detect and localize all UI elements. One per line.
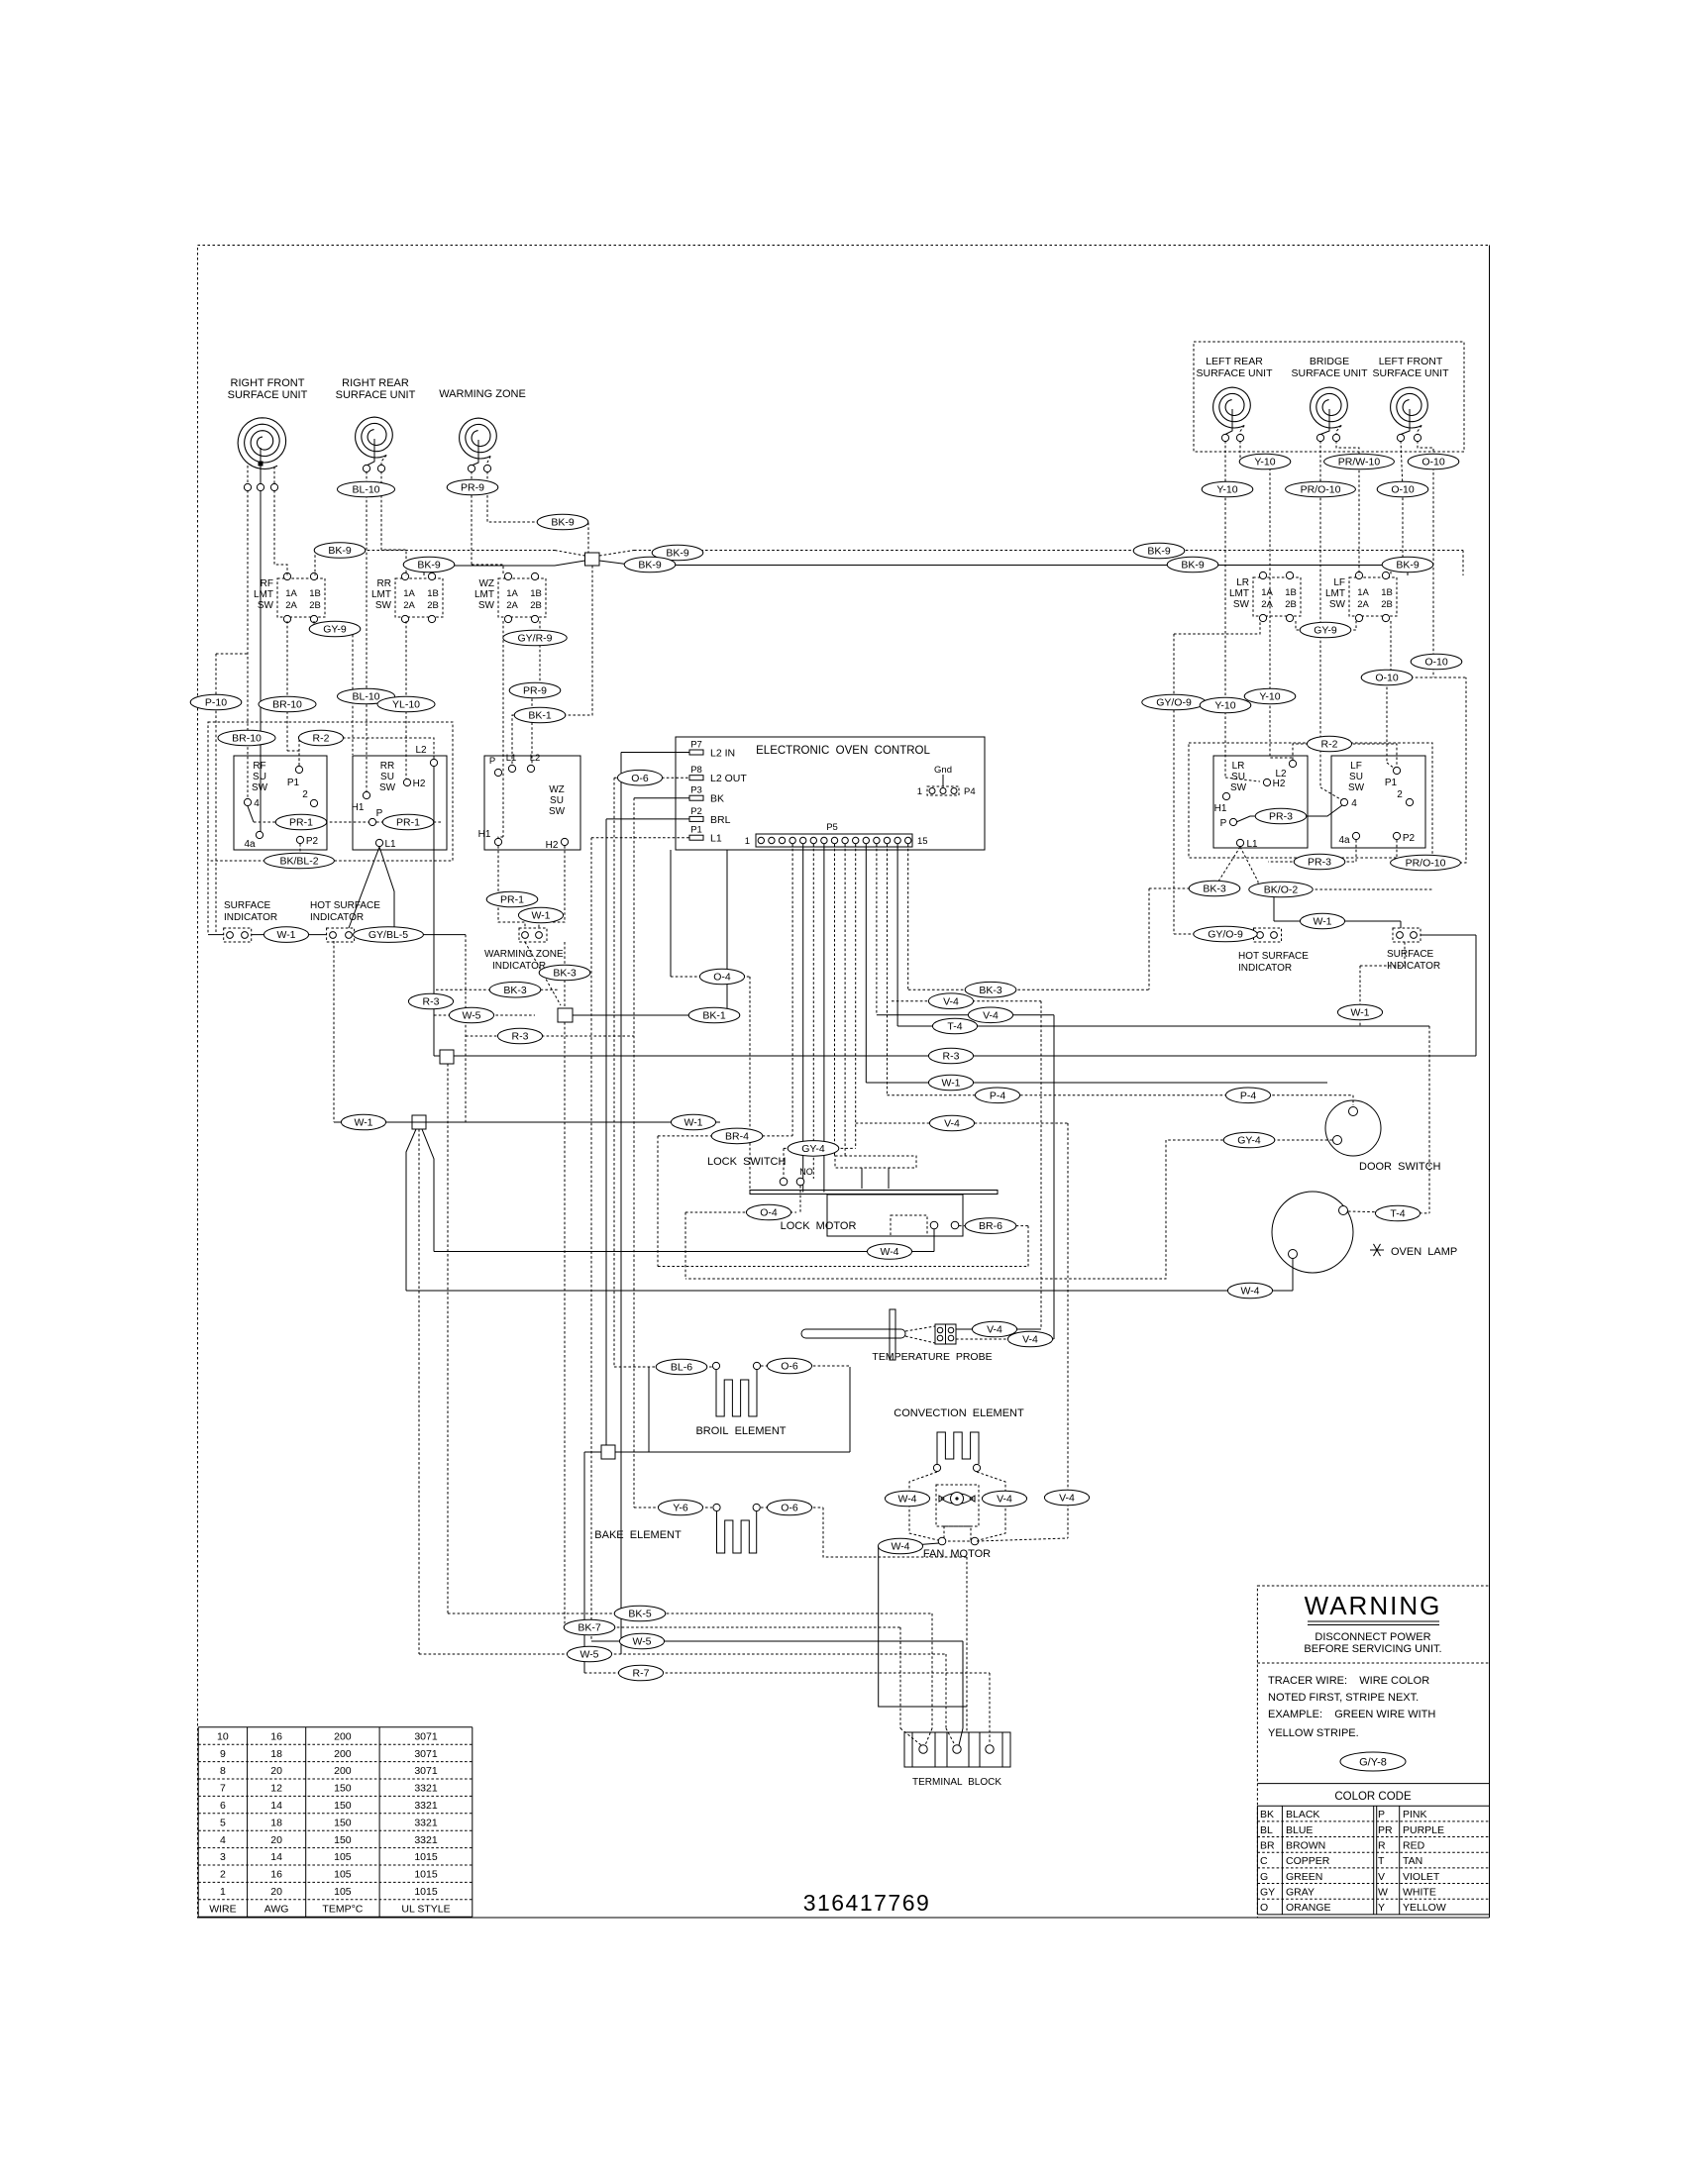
svg-text:BK-1: BK-1 (702, 1010, 726, 1022)
svg-text:V-4: V-4 (987, 1324, 1002, 1336)
svg-text:2B: 2B (427, 600, 439, 611)
svg-text:1: 1 (220, 1886, 226, 1898)
svg-text:O-10: O-10 (1421, 457, 1445, 468)
svg-text:WARMING ZONE: WARMING ZONE (439, 388, 526, 400)
svg-text:BK-9: BK-9 (417, 560, 441, 572)
svg-text:CONVECTION ELEMENT: CONVECTION ELEMENT (894, 1407, 1024, 1419)
svg-text:1B: 1B (309, 588, 321, 599)
svg-text:EXAMPLE: GREEN WIRE WITH: EXAMPLE: GREEN WIRE WITH (1268, 1709, 1435, 1720)
svg-text:SW: SW (379, 782, 396, 793)
svg-text:SURFACE UNIT: SURFACE UNIT (1372, 367, 1449, 379)
svg-text:NO: NO (799, 1167, 813, 1177)
svg-text:P: P (1378, 1809, 1385, 1820)
svg-text:TAN: TAN (1403, 1855, 1422, 1867)
svg-text:SW: SW (1348, 782, 1365, 793)
svg-text:W-5: W-5 (462, 1010, 480, 1022)
svg-text:GY-9: GY-9 (323, 624, 347, 636)
svg-text:1A: 1A (403, 588, 415, 599)
svg-text:1015: 1015 (414, 1851, 438, 1863)
svg-text:2A: 2A (1261, 599, 1273, 610)
svg-text:O-4: O-4 (760, 1207, 778, 1219)
svg-text:P-4: P-4 (990, 1090, 1006, 1101)
svg-text:BEFORE SERVICING UNIT.: BEFORE SERVICING UNIT. (1304, 1643, 1441, 1655)
svg-text:SW: SW (1230, 782, 1247, 793)
svg-text:COLOR CODE: COLOR CODE (1334, 1791, 1412, 1803)
svg-text:SU: SU (1231, 772, 1245, 782)
svg-text:PR-1: PR-1 (500, 894, 524, 906)
svg-text:INDICATOR: INDICATOR (224, 912, 277, 923)
svg-text:ELECTRONIC OVEN CONTROL: ELECTRONIC OVEN CONTROL (756, 745, 930, 757)
svg-text:1B: 1B (427, 588, 439, 599)
svg-text:Y-10: Y-10 (1214, 700, 1235, 712)
svg-text:W-1: W-1 (276, 929, 295, 941)
svg-text:RED: RED (1403, 1840, 1425, 1852)
svg-text:P: P (1220, 818, 1227, 829)
svg-text:P4: P4 (964, 786, 976, 797)
svg-text:WZ: WZ (549, 784, 565, 795)
svg-text:3321: 3321 (414, 1800, 438, 1812)
svg-text:HOT SURFACE: HOT SURFACE (1238, 951, 1309, 962)
svg-text:SURFACE UNIT: SURFACE UNIT (1196, 367, 1273, 379)
svg-text:W-5: W-5 (579, 1649, 598, 1661)
svg-text:1A: 1A (506, 588, 518, 599)
svg-text:18: 18 (270, 1817, 282, 1828)
svg-text:O-4: O-4 (713, 972, 731, 984)
svg-text:BRIDGE: BRIDGE (1310, 356, 1349, 367)
svg-text:RF: RF (253, 761, 265, 772)
svg-text:BK-9: BK-9 (328, 545, 352, 557)
svg-text:4: 4 (220, 1834, 226, 1846)
svg-text:SU: SU (550, 795, 564, 806)
svg-text:BR-10: BR-10 (272, 699, 302, 711)
svg-text:200: 200 (334, 1730, 352, 1742)
svg-text:BROWN: BROWN (1286, 1840, 1325, 1852)
svg-text:2A: 2A (1357, 599, 1369, 610)
svg-text:GY/R-9: GY/R-9 (517, 633, 552, 645)
svg-text:Y-6: Y-6 (673, 1503, 688, 1514)
svg-text:T-4: T-4 (1390, 1208, 1405, 1220)
svg-text:DISCONNECT POWER: DISCONNECT POWER (1315, 1631, 1430, 1643)
svg-text:1A: 1A (1261, 587, 1273, 598)
svg-text:GY/O-9: GY/O-9 (1208, 929, 1243, 941)
svg-text:L1: L1 (710, 833, 722, 845)
svg-text:INDICATOR: INDICATOR (492, 961, 546, 972)
svg-text:W-1: W-1 (941, 1078, 960, 1090)
svg-text:GY/O-9: GY/O-9 (1156, 697, 1192, 709)
svg-text:H1: H1 (478, 829, 491, 840)
svg-text:W-1: W-1 (684, 1117, 702, 1129)
svg-text:L2: L2 (530, 753, 541, 764)
svg-text:10: 10 (217, 1730, 229, 1742)
svg-text:P1: P1 (690, 825, 702, 836)
svg-text:RR: RR (380, 761, 394, 772)
svg-text:1015: 1015 (414, 1869, 438, 1881)
svg-text:WARMING ZONE: WARMING ZONE (484, 949, 564, 960)
svg-text:SW: SW (375, 600, 392, 611)
svg-text:1B: 1B (1381, 587, 1393, 598)
svg-text:LEFT FRONT: LEFT FRONT (1379, 356, 1443, 367)
svg-text:BLACK: BLACK (1286, 1809, 1319, 1820)
svg-text:BK-3: BK-3 (503, 985, 527, 996)
svg-text:VIOLET: VIOLET (1403, 1871, 1440, 1883)
svg-text:BAKE ELEMENT: BAKE ELEMENT (594, 1529, 682, 1541)
svg-text:GY-4: GY-4 (1237, 1135, 1261, 1147)
svg-text:NOTED FIRST, STRIPE NEXT.: NOTED FIRST, STRIPE NEXT. (1268, 1692, 1419, 1704)
svg-text:PR-1: PR-1 (396, 817, 420, 829)
svg-text:LMT: LMT (474, 589, 494, 600)
svg-text:P3: P3 (690, 785, 702, 796)
svg-text:W-4: W-4 (891, 1541, 909, 1553)
svg-text:LMT: LMT (1229, 588, 1249, 599)
svg-text:BK-7: BK-7 (578, 1622, 601, 1634)
svg-text:W-5: W-5 (632, 1636, 651, 1648)
svg-text:R: R (1378, 1840, 1386, 1852)
svg-text:L1: L1 (1246, 839, 1258, 850)
svg-text:PR/O-10: PR/O-10 (1406, 858, 1446, 870)
svg-text:150: 150 (334, 1800, 352, 1812)
svg-text:GY-9: GY-9 (1314, 625, 1337, 637)
svg-text:H2: H2 (546, 840, 559, 851)
svg-text:RIGHT FRONT: RIGHT FRONT (231, 377, 305, 389)
svg-text:O-6: O-6 (631, 773, 649, 784)
svg-text:BK-9: BK-9 (666, 548, 689, 560)
svg-text:105: 105 (334, 1886, 352, 1898)
svg-text:PR-3: PR-3 (1269, 811, 1293, 823)
svg-text:INDICATOR: INDICATOR (310, 912, 364, 923)
svg-text:BK-9: BK-9 (1181, 560, 1205, 572)
svg-text:W-1: W-1 (1350, 1007, 1369, 1019)
svg-text:7: 7 (220, 1783, 226, 1795)
svg-text:P2: P2 (690, 806, 702, 817)
svg-text:RF: RF (261, 578, 273, 589)
svg-text:SURFACE UNIT: SURFACE UNIT (1291, 367, 1368, 379)
svg-text:Y-10: Y-10 (1259, 691, 1280, 703)
svg-text:3071: 3071 (414, 1730, 438, 1742)
svg-text:5: 5 (220, 1817, 226, 1828)
svg-text:LR: LR (1232, 761, 1245, 772)
svg-text:H2: H2 (1273, 779, 1286, 789)
svg-text:BK-3: BK-3 (1203, 884, 1226, 895)
svg-text:P-4: P-4 (1240, 1090, 1257, 1101)
svg-text:DOOR SWITCH: DOOR SWITCH (1359, 1161, 1441, 1173)
svg-text:P: P (489, 756, 495, 767)
svg-text:LOCK SWITCH: LOCK SWITCH (707, 1156, 787, 1168)
svg-text:150: 150 (334, 1817, 352, 1828)
svg-text:316417769: 316417769 (803, 1890, 931, 1916)
svg-text:20: 20 (270, 1834, 282, 1846)
svg-text:BK: BK (710, 793, 724, 805)
svg-text:3: 3 (220, 1851, 226, 1863)
svg-text:LMT: LMT (254, 589, 273, 600)
svg-text:20: 20 (270, 1886, 282, 1898)
svg-text:16: 16 (270, 1869, 282, 1881)
svg-text:BRL: BRL (710, 814, 731, 826)
svg-text:V-4: V-4 (944, 1118, 960, 1130)
svg-text:V: V (1378, 1871, 1385, 1883)
svg-text:R-3: R-3 (423, 996, 440, 1008)
svg-text:TERMINAL BLOCK: TERMINAL BLOCK (912, 1777, 1001, 1788)
svg-text:SURFACE UNIT: SURFACE UNIT (228, 389, 308, 401)
svg-text:Y-10: Y-10 (1216, 484, 1237, 496)
svg-text:V-4: V-4 (983, 1009, 999, 1021)
svg-text:TEMP°C: TEMP°C (322, 1903, 363, 1915)
svg-text:2B: 2B (1381, 599, 1393, 610)
svg-text:SURFACE: SURFACE (224, 900, 271, 911)
svg-text:FAN MOTOR: FAN MOTOR (923, 1548, 991, 1560)
svg-text:R-2: R-2 (1321, 739, 1338, 751)
svg-text:PR-3: PR-3 (1308, 857, 1331, 869)
svg-text:1B: 1B (1285, 587, 1297, 598)
svg-text:W-4: W-4 (880, 1246, 898, 1258)
svg-text:3321: 3321 (414, 1817, 438, 1828)
svg-text:BR-4: BR-4 (725, 1131, 749, 1143)
svg-text:R-3: R-3 (943, 1051, 960, 1063)
svg-text:BL-10: BL-10 (352, 691, 379, 703)
svg-text:PR: PR (1378, 1824, 1393, 1836)
svg-text:W-1: W-1 (531, 910, 550, 922)
svg-text:L2 OUT: L2 OUT (710, 773, 747, 784)
svg-text:4a: 4a (1338, 835, 1350, 846)
svg-text:BK-1: BK-1 (528, 710, 552, 722)
svg-text:PURPLE: PURPLE (1403, 1824, 1444, 1836)
svg-text:150: 150 (334, 1834, 352, 1846)
svg-text:W-1: W-1 (354, 1117, 372, 1129)
svg-text:G/Y-8: G/Y-8 (1359, 1757, 1387, 1769)
svg-text:H2: H2 (413, 779, 426, 789)
svg-text:SURFACE UNIT: SURFACE UNIT (336, 389, 416, 401)
svg-text:R-3: R-3 (512, 1031, 529, 1043)
svg-text:BK-9: BK-9 (551, 517, 575, 529)
svg-text:1A: 1A (285, 588, 297, 599)
svg-text:GY: GY (1260, 1887, 1275, 1899)
svg-text:HOT SURFACE: HOT SURFACE (310, 900, 380, 911)
svg-text:YELLOW STRIPE.: YELLOW STRIPE. (1268, 1727, 1359, 1739)
svg-text:200: 200 (334, 1765, 352, 1777)
svg-text:P1: P1 (1385, 778, 1398, 788)
svg-text:BL-6: BL-6 (671, 1362, 692, 1374)
svg-text:OVEN LAMP: OVEN LAMP (1391, 1246, 1457, 1258)
svg-text:LMT: LMT (371, 589, 391, 600)
svg-text:P: P (376, 808, 383, 819)
svg-text:2B: 2B (309, 600, 321, 611)
svg-text:ORANGE: ORANGE (1286, 1902, 1331, 1914)
svg-text:WIRE: WIRE (209, 1903, 236, 1915)
svg-text:15: 15 (917, 836, 928, 847)
svg-text:WZ: WZ (478, 578, 494, 589)
svg-text:SW: SW (478, 600, 495, 611)
svg-text:UL STYLE: UL STYLE (401, 1903, 450, 1915)
svg-text:SW: SW (1233, 599, 1250, 610)
svg-text:1015: 1015 (414, 1886, 438, 1898)
svg-text:Gnd: Gnd (934, 765, 952, 776)
svg-text:RIGHT REAR: RIGHT REAR (342, 377, 409, 389)
svg-text:TRACER WIRE: WIRE COLOR: TRACER WIRE: WIRE COLOR (1268, 1675, 1429, 1687)
svg-text:4: 4 (1351, 798, 1357, 809)
svg-text:GREEN: GREEN (1286, 1871, 1322, 1883)
svg-text:BK/O-2: BK/O-2 (1264, 884, 1299, 896)
svg-text:YELLOW: YELLOW (1403, 1902, 1446, 1914)
svg-text:6: 6 (220, 1800, 226, 1812)
svg-text:PR-9: PR-9 (523, 685, 547, 697)
svg-text:P2: P2 (306, 836, 319, 847)
svg-text:G: G (1260, 1871, 1268, 1883)
svg-text:H1: H1 (352, 802, 365, 813)
svg-text:2: 2 (302, 789, 308, 800)
svg-text:AWG: AWG (264, 1903, 289, 1915)
svg-text:2A: 2A (403, 600, 415, 611)
svg-text:4: 4 (254, 798, 260, 809)
svg-text:2B: 2B (530, 600, 542, 611)
svg-text:LOCK MOTOR: LOCK MOTOR (781, 1220, 857, 1232)
svg-text:V-4: V-4 (943, 995, 959, 1007)
svg-text:3071: 3071 (414, 1765, 438, 1777)
svg-text:V-4: V-4 (1022, 1334, 1038, 1346)
svg-text:SW: SW (1329, 599, 1346, 610)
svg-text:R-7: R-7 (633, 1668, 650, 1680)
svg-text:SW: SW (258, 600, 274, 611)
svg-text:18: 18 (270, 1748, 282, 1760)
svg-text:RR: RR (377, 578, 391, 589)
svg-text:14: 14 (270, 1851, 282, 1863)
svg-text:3321: 3321 (414, 1783, 438, 1795)
svg-text:O-10: O-10 (1424, 657, 1448, 669)
svg-text:SURFACE: SURFACE (1387, 949, 1434, 960)
svg-text:TEMPERATURE PROBE: TEMPERATURE PROBE (872, 1351, 992, 1363)
svg-text:BK-3: BK-3 (979, 985, 1002, 996)
svg-text:BK/BL-2: BK/BL-2 (279, 856, 318, 868)
svg-text:PR-9: PR-9 (461, 482, 484, 494)
svg-text:W-1: W-1 (1313, 916, 1331, 928)
svg-text:T-4: T-4 (947, 1021, 962, 1033)
svg-text:BK: BK (1260, 1809, 1274, 1820)
svg-text:BR-10: BR-10 (232, 733, 262, 745)
svg-text:BR-6: BR-6 (979, 1220, 1002, 1232)
svg-text:1B: 1B (530, 588, 542, 599)
svg-text:BK-9: BK-9 (1396, 560, 1420, 572)
svg-text:P7: P7 (690, 740, 702, 751)
svg-text:C: C (1260, 1855, 1268, 1867)
svg-text:3071: 3071 (414, 1748, 438, 1760)
svg-text:BK-3: BK-3 (553, 968, 577, 980)
svg-text:9: 9 (220, 1748, 226, 1760)
svg-text:2: 2 (220, 1869, 226, 1881)
svg-text:PR/W-10: PR/W-10 (1338, 457, 1381, 468)
svg-text:H1: H1 (1214, 803, 1227, 814)
svg-text:GRAY: GRAY (1286, 1887, 1315, 1899)
svg-text:COPPER: COPPER (1286, 1855, 1330, 1867)
svg-text:BLUE: BLUE (1286, 1824, 1313, 1836)
svg-text:L1: L1 (506, 753, 517, 764)
svg-text:V-4: V-4 (1059, 1493, 1075, 1505)
svg-text:BK-5: BK-5 (628, 1609, 652, 1620)
svg-text:WARNING: WARNING (1305, 1591, 1442, 1620)
svg-text:8: 8 (220, 1765, 226, 1777)
svg-text:2A: 2A (285, 600, 297, 611)
svg-text:W-4: W-4 (1240, 1286, 1259, 1298)
svg-text:2A: 2A (506, 600, 518, 611)
svg-text:2B: 2B (1285, 599, 1297, 610)
svg-text:P5: P5 (826, 822, 838, 833)
svg-text:105: 105 (334, 1869, 352, 1881)
svg-text:Y-10: Y-10 (1254, 457, 1275, 468)
svg-text:BL: BL (1260, 1824, 1273, 1836)
svg-text:BK-9: BK-9 (638, 560, 662, 572)
svg-text:SU: SU (380, 772, 394, 782)
svg-text:O: O (1260, 1902, 1268, 1914)
svg-text:LR: LR (1236, 577, 1249, 588)
svg-text:BROIL ELEMENT: BROIL ELEMENT (695, 1425, 786, 1437)
svg-text:LF: LF (1350, 761, 1362, 772)
svg-text:W-4: W-4 (897, 1494, 916, 1506)
svg-text:YL-10: YL-10 (392, 699, 420, 711)
svg-text:4a: 4a (244, 839, 256, 850)
svg-text:3321: 3321 (414, 1834, 438, 1846)
svg-text:14: 14 (270, 1800, 282, 1812)
svg-text:20: 20 (270, 1765, 282, 1777)
svg-text:O-6: O-6 (781, 1503, 798, 1514)
svg-text:1: 1 (917, 786, 922, 797)
svg-text:V-4: V-4 (997, 1494, 1012, 1506)
svg-text:150: 150 (334, 1783, 352, 1795)
svg-text:W: W (1378, 1887, 1388, 1899)
svg-text:O-10: O-10 (1391, 484, 1415, 496)
svg-text:BK-9: BK-9 (1147, 546, 1171, 558)
svg-text:Y: Y (1378, 1902, 1385, 1914)
svg-text:SW: SW (252, 782, 268, 793)
svg-text:INDICATOR: INDICATOR (1238, 963, 1292, 974)
svg-text:2: 2 (1397, 789, 1403, 800)
svg-text:PR/O-10: PR/O-10 (1301, 484, 1341, 496)
svg-text:P8: P8 (690, 765, 702, 776)
svg-text:GY/BL-5: GY/BL-5 (368, 929, 408, 941)
svg-text:L1: L1 (384, 839, 396, 850)
svg-text:16: 16 (270, 1730, 282, 1742)
svg-text:SW: SW (549, 806, 566, 817)
svg-text:12: 12 (270, 1783, 282, 1795)
svg-text:T: T (1378, 1855, 1385, 1867)
svg-text:105: 105 (334, 1851, 352, 1863)
svg-text:GY-4: GY-4 (801, 1143, 825, 1155)
svg-text:BR: BR (1260, 1840, 1275, 1852)
svg-text:BL-10: BL-10 (352, 484, 379, 496)
svg-text:L2: L2 (415, 745, 427, 756)
svg-text:PINK: PINK (1403, 1809, 1427, 1820)
svg-text:LEFT REAR: LEFT REAR (1206, 356, 1263, 367)
svg-text:200: 200 (334, 1748, 352, 1760)
svg-text:SU: SU (253, 772, 266, 782)
svg-text:PR-1: PR-1 (289, 817, 313, 829)
svg-text:WHITE: WHITE (1403, 1887, 1436, 1899)
svg-text:L2 IN: L2 IN (710, 748, 735, 760)
svg-text:P-10: P-10 (205, 697, 227, 709)
svg-text:LF: LF (1333, 577, 1345, 588)
svg-text:P1: P1 (287, 778, 300, 788)
svg-text:1: 1 (745, 836, 750, 847)
svg-text:P2: P2 (1403, 833, 1416, 844)
svg-text:LMT: LMT (1325, 588, 1345, 599)
svg-text:O-10: O-10 (1375, 673, 1399, 684)
svg-text:R-2: R-2 (313, 733, 330, 745)
svg-text:O-6: O-6 (781, 1361, 798, 1373)
svg-text:SU: SU (1349, 772, 1363, 782)
svg-text:1A: 1A (1357, 587, 1369, 598)
